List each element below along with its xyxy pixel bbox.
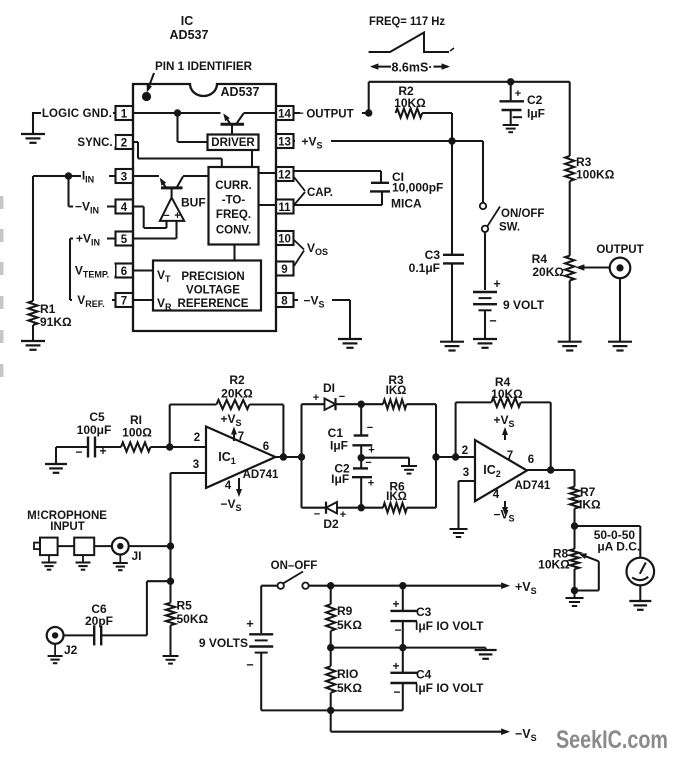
svg-text:C3: C3: [425, 248, 441, 262]
svg-text:BUF: BUF: [181, 196, 206, 210]
svg-text:FREQ.: FREQ.: [216, 209, 251, 221]
svg-text:CURR.: CURR.: [215, 180, 251, 192]
svg-text:SYNC.: SYNC.: [77, 137, 112, 149]
svg-text:12: 12: [278, 169, 291, 181]
svg-text:14: 14: [278, 108, 291, 120]
svg-text:−: −: [314, 509, 320, 521]
svg-text:10KΩ: 10KΩ: [394, 96, 426, 110]
svg-text:4: 4: [493, 489, 500, 501]
svg-text:+: +: [368, 478, 374, 490]
svg-text:IC: IC: [181, 14, 194, 28]
svg-text:−: −: [489, 314, 496, 328]
svg-text:AD537: AD537: [221, 85, 260, 99]
svg-text:100Ω: 100Ω: [122, 426, 152, 440]
svg-text:IμF: IμF: [527, 107, 545, 121]
svg-text:CAP.: CAP.: [307, 187, 333, 199]
svg-text:−: −: [367, 422, 373, 434]
svg-text:+: +: [174, 210, 180, 222]
svg-text:MICA: MICA: [391, 197, 422, 211]
svg-text:C2: C2: [527, 93, 543, 107]
svg-text:DRIVER: DRIVER: [211, 137, 255, 149]
svg-text:R4: R4: [532, 252, 548, 266]
svg-text:+: +: [368, 445, 374, 457]
svg-text:μA D.C.: μA D.C.: [597, 540, 640, 554]
svg-text:7: 7: [121, 295, 127, 307]
svg-text:VOLTAGE: VOLTAGE: [186, 285, 240, 297]
svg-text:SW.: SW.: [499, 222, 520, 234]
svg-text:−: −: [365, 457, 371, 469]
svg-text:10KΩ: 10KΩ: [491, 387, 523, 401]
svg-text:IKΩ: IKΩ: [386, 491, 407, 503]
svg-text:6: 6: [528, 454, 534, 466]
svg-text:OUTPUT: OUTPUT: [306, 109, 353, 121]
svg-text:J2: J2: [64, 643, 78, 657]
svg-text:AD741: AD741: [514, 480, 550, 492]
svg-text:LOGIC GND.: LOGIC GND.: [42, 108, 112, 120]
svg-text:IμF: IμF: [331, 472, 349, 486]
svg-text:11: 11: [278, 202, 291, 214]
svg-text:2: 2: [121, 137, 127, 149]
svg-text:4: 4: [121, 202, 128, 214]
svg-text:IKΩ: IKΩ: [579, 498, 601, 512]
svg-text:REFERENCE: REFERENCE: [178, 298, 249, 310]
svg-text:IμF IO VOLT: IμF IO VOLT: [415, 681, 484, 695]
svg-text:7: 7: [507, 450, 513, 462]
svg-text:−: −: [75, 445, 82, 459]
svg-text:10KΩ: 10KΩ: [538, 558, 570, 572]
svg-text:0.1μF: 0.1μF: [409, 261, 440, 275]
svg-text:2: 2: [194, 432, 200, 444]
svg-text:FREQ= 117 Hz: FREQ= 117 Hz: [369, 14, 445, 28]
svg-text:R5: R5: [177, 599, 193, 613]
svg-text:9: 9: [281, 264, 287, 276]
svg-text:PIN 1 IDENTIFIER: PIN 1 IDENTIFIER: [155, 59, 252, 73]
svg-text:−: −: [246, 658, 253, 672]
svg-text:R1: R1: [40, 302, 56, 316]
svg-text:6: 6: [121, 266, 127, 278]
svg-text:20KΩ: 20KΩ: [532, 265, 564, 279]
svg-text:C4: C4: [416, 668, 432, 682]
svg-text:1: 1: [121, 108, 128, 120]
svg-text:4: 4: [225, 480, 232, 492]
svg-text:ON–OFF: ON–OFF: [271, 560, 318, 572]
svg-text:−: −: [339, 391, 345, 403]
svg-text:6: 6: [263, 441, 269, 453]
svg-text:−: −: [394, 623, 401, 637]
svg-text:OUTPUT: OUTPUT: [596, 244, 643, 256]
svg-text:CONV.: CONV.: [216, 225, 251, 237]
svg-text:3: 3: [121, 171, 127, 183]
svg-text:PRECISION: PRECISION: [181, 271, 244, 283]
svg-text:-TO-: -TO-: [222, 195, 246, 207]
svg-text:+: +: [313, 392, 319, 404]
svg-text:20pF: 20pF: [85, 614, 113, 628]
svg-text:AD741: AD741: [243, 469, 279, 481]
svg-text:3: 3: [463, 467, 469, 479]
svg-text:D2: D2: [323, 517, 339, 531]
svg-text:91KΩ: 91KΩ: [40, 315, 72, 329]
svg-text:9 VOLTS: 9 VOLTS: [199, 636, 248, 650]
svg-text:JI: JI: [132, 549, 142, 563]
svg-text:+: +: [392, 659, 399, 673]
svg-text:2: 2: [462, 445, 468, 457]
svg-text:13: 13: [278, 136, 291, 148]
svg-text:IμF IO VOLT: IμF IO VOLT: [415, 619, 484, 633]
svg-text:9 VOLT: 9 VOLT: [503, 298, 545, 312]
svg-text:IKΩ: IKΩ: [386, 385, 407, 397]
svg-text:100KΩ: 100KΩ: [576, 168, 615, 182]
svg-text:8.6mS·: 8.6mS·: [392, 61, 433, 75]
svg-text:5KΩ: 5KΩ: [337, 681, 362, 695]
svg-text:AD537: AD537: [170, 28, 209, 42]
svg-text:100μF: 100μF: [77, 423, 112, 437]
svg-text:−: −: [393, 685, 400, 699]
svg-text:C5: C5: [89, 410, 105, 424]
svg-text:−: −: [163, 210, 169, 222]
svg-text:8: 8: [281, 295, 288, 307]
svg-text:+: +: [493, 277, 500, 291]
svg-text:INPUT: INPUT: [50, 521, 85, 533]
svg-text:10,000pF: 10,000pF: [392, 181, 443, 195]
svg-text:+: +: [392, 597, 399, 611]
svg-text:+: +: [246, 617, 253, 631]
svg-text:ON/OFF: ON/OFF: [501, 208, 544, 220]
svg-text:5: 5: [121, 234, 128, 246]
svg-text:7: 7: [238, 431, 244, 443]
svg-text:SeekIC.com: SeekIC.com: [556, 726, 668, 754]
svg-text:R2: R2: [229, 373, 245, 387]
svg-text:3: 3: [193, 459, 199, 471]
svg-text:+: +: [340, 509, 346, 521]
svg-text:IμF: IμF: [330, 439, 348, 453]
svg-text:5KΩ: 5KΩ: [337, 618, 362, 632]
svg-text:C3: C3: [416, 605, 432, 619]
svg-text:−: −: [297, 108, 304, 120]
svg-text:R9: R9: [337, 604, 353, 618]
svg-text:20KΩ: 20KΩ: [221, 387, 253, 401]
svg-text:50KΩ: 50KΩ: [177, 612, 209, 626]
svg-text:10: 10: [278, 233, 291, 245]
svg-text:RIO: RIO: [337, 667, 358, 681]
svg-text:DI: DI: [323, 381, 335, 395]
svg-text:+: +: [515, 88, 521, 100]
